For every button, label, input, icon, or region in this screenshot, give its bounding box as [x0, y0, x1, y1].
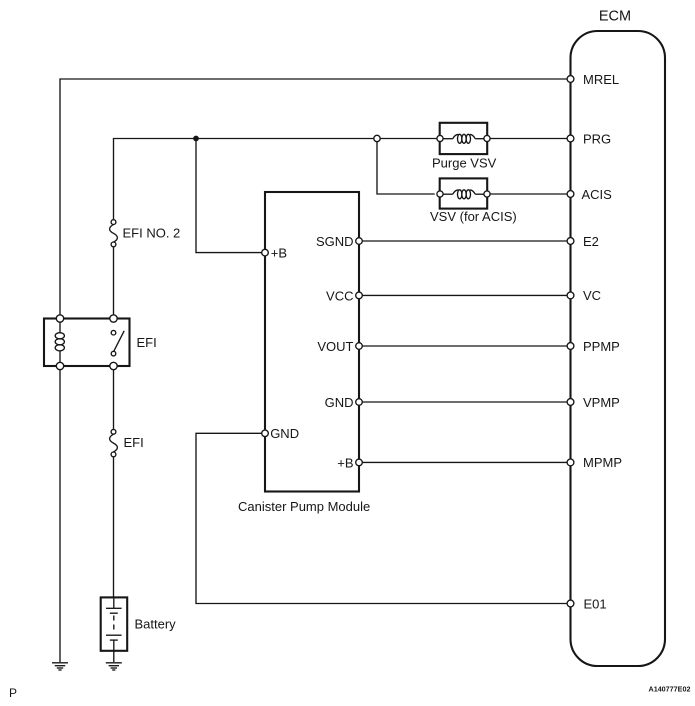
svg-text:MPMP: MPMP	[583, 455, 622, 470]
pin SGND (module right)	[316, 234, 362, 249]
wire EFI NO.2 rail middle (fuse to relay)	[113, 244, 115, 318]
pin MREL (ECM)	[567, 72, 619, 87]
wire relay to EFI fuse	[113, 366, 115, 432]
Canister Pump Module label	[238, 499, 370, 514]
pin ACIS (ECM)	[567, 187, 612, 202]
relay EFI label	[137, 335, 157, 350]
pin VPMP (ECM)	[567, 395, 620, 410]
VSV (for ACIS) terminal pins	[437, 191, 490, 197]
pin GND (module left bottom)	[262, 426, 299, 441]
svg-text:ACIS: ACIS	[582, 187, 613, 202]
battery internal symbol	[106, 597, 122, 640]
fuse EFI NO. 2 value label	[123, 225, 181, 240]
fuse EFI	[110, 429, 118, 456]
svg-text:VPMP: VPMP	[583, 395, 620, 410]
pin VOUT (module right)	[317, 339, 362, 354]
solenoid valve VSV (for ACIS) (box)	[440, 178, 488, 208]
wire ACIS net right segment (VSV to ECM ACIS)	[490, 193, 567, 195]
VSV (for ACIS) coil	[443, 190, 485, 199]
svg-text:VC: VC	[583, 288, 601, 303]
wire branch to ACIS VSV	[377, 139, 435, 195]
svg-text:EFI: EFI	[124, 435, 144, 450]
svg-text:VSV (for ACIS): VSV (for ACIS)	[430, 209, 517, 224]
svg-text:VCC: VCC	[326, 288, 353, 303]
relay switch contact	[111, 330, 124, 356]
svg-text:GND: GND	[325, 395, 354, 410]
wire GND to VPMP	[362, 401, 567, 403]
Purge VSV coil	[443, 134, 485, 143]
drawing number A140777E02	[649, 685, 691, 694]
svg-text:A140777E02: A140777E02	[649, 685, 691, 694]
wire left rail lower segment (relay coil to ground)	[59, 351, 61, 662]
svg-text:E2: E2	[583, 234, 599, 249]
pin E01 (ECM)	[567, 596, 607, 611]
pin GND (module right)	[325, 395, 363, 410]
pin PRG (ECM)	[567, 131, 611, 146]
wire branch to Canister Pump Module +B	[196, 139, 262, 253]
pin VCC (module right)	[326, 288, 362, 303]
svg-text:EFI: EFI	[137, 335, 157, 350]
relay K1 EFI (box)	[44, 319, 130, 367]
svg-text:GND: GND	[270, 426, 299, 441]
junction dot on PRG net	[193, 136, 199, 142]
svg-text:Purge VSV: Purge VSV	[432, 156, 497, 171]
page marker P	[9, 686, 17, 700]
wire VCC to VC	[362, 294, 567, 296]
ECM label	[599, 9, 631, 25]
pin +B (module left top)	[262, 245, 287, 260]
wire EFI fuse to battery	[113, 454, 115, 597]
ground (battery)	[106, 663, 122, 670]
pin PPMP (ECM)	[567, 339, 620, 354]
relay terminal pins	[56, 315, 117, 370]
wire GND to E01	[196, 433, 567, 603]
battery BT1 (box)	[101, 597, 128, 650]
svg-text:ECM: ECM	[599, 9, 631, 25]
wire VOUT to PPMP	[362, 345, 567, 347]
svg-text:+B: +B	[271, 245, 287, 260]
svg-text:SGND: SGND	[316, 234, 354, 249]
VSV (for ACIS) label	[430, 209, 517, 224]
ground (left rail)	[52, 663, 68, 670]
relay coil	[55, 333, 64, 351]
wire +B to MPMP	[362, 461, 567, 463]
svg-text:VOUT: VOUT	[317, 339, 353, 354]
battery label	[135, 617, 177, 632]
pin E2 (ECM)	[567, 234, 599, 249]
svg-text:Canister Pump Module: Canister Pump Module	[238, 499, 370, 514]
fuse EFI NO. 2	[110, 220, 118, 247]
pin +B (module right)	[337, 455, 362, 470]
ECM U1 (engine control module body)	[571, 31, 666, 666]
wire PRG net left segment (Purge VSV to EFI NO.2 rail)	[114, 139, 443, 223]
Purge VSV terminal pins	[437, 135, 490, 141]
Canister Pump Module (box)	[265, 192, 359, 492]
Purge VSV label	[432, 156, 497, 171]
pin VC (ECM)	[567, 288, 601, 303]
solenoid valve Purge VSV (box)	[440, 123, 488, 154]
svg-text:+B: +B	[337, 455, 353, 470]
wire MREL net (ECM MREL to left rail down to ground)	[60, 79, 570, 333]
fuse EFI value label	[124, 435, 144, 450]
node circle on PRG net at ACIS branch	[374, 135, 380, 141]
svg-text:E01: E01	[584, 596, 607, 611]
svg-text:Battery: Battery	[135, 617, 177, 632]
wire battery to ground	[113, 640, 115, 662]
svg-text:PRG: PRG	[583, 131, 611, 146]
svg-text:MREL: MREL	[583, 72, 619, 87]
wire SGND to E2	[362, 240, 567, 242]
svg-text:EFI NO. 2: EFI NO. 2	[123, 225, 181, 240]
pin MPMP (ECM)	[567, 455, 622, 470]
svg-text:P: P	[9, 686, 17, 700]
wire PRG net right segment (Purge VSV to ECM PRG)	[485, 138, 568, 140]
svg-text:PPMP: PPMP	[583, 339, 620, 354]
